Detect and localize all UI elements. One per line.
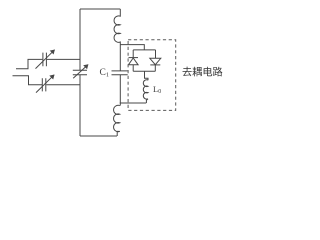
wire: left diode top lead xyxy=(132,50,134,58)
node A: upper-left input stub xyxy=(16,59,42,68)
capacitor CT3 (variable, in series with left rail) plates xyxy=(73,70,87,75)
wire: right diode bottom lead xyxy=(154,65,156,71)
svg-text:L0: L0 xyxy=(153,84,161,95)
wire: upper branch right segment to rail xyxy=(47,58,80,60)
capacitor CT2 arrow xyxy=(36,75,54,93)
wire: tap from diode rail down to L0 xyxy=(145,71,149,80)
capacitor CT1 arrow xyxy=(36,50,55,69)
wire: diode bottom rail xyxy=(133,70,155,72)
diode D2 (pointing down) xyxy=(150,58,161,64)
node B: lower-left input stub xyxy=(13,76,43,85)
wire: center rail from coil bottom to C1 xyxy=(119,45,121,71)
wire: branch to diode pair xyxy=(120,45,144,50)
wire: diode top rail xyxy=(133,49,155,51)
wire: right diode top lead xyxy=(155,50,157,58)
wire: left diode bottom lead xyxy=(132,65,134,72)
svg-text:去耦电路: 去耦电路 xyxy=(182,66,223,79)
capacitor C1 plates xyxy=(112,71,128,75)
inductor L1 (top coil) xyxy=(114,9,120,45)
inductor L2 (bottom coil) xyxy=(114,105,120,136)
wire: L0 bottom to center rail node J xyxy=(120,102,146,104)
capacitor CT3 arrow xyxy=(73,65,88,79)
capacitor CT1 (variable) plates xyxy=(43,53,47,67)
svg-text:C1: C1 xyxy=(100,68,110,79)
wire: left vertical rail lower section xyxy=(79,75,81,136)
wire: bottom horizontal xyxy=(80,135,117,137)
wire: top horizontal from left rail to top coil xyxy=(80,8,120,10)
dashed box: decoupling circuit boundary xyxy=(128,40,176,111)
diode D1 (pointing up) xyxy=(129,57,139,59)
wire: left vertical rail upper section xyxy=(79,9,81,70)
capacitor CT2 (variable) plates xyxy=(42,78,46,91)
wire: lower branch right segment to rail xyxy=(46,84,80,86)
wire: center rail from C1 down to node J xyxy=(119,75,121,106)
inductor L0 xyxy=(143,80,148,103)
